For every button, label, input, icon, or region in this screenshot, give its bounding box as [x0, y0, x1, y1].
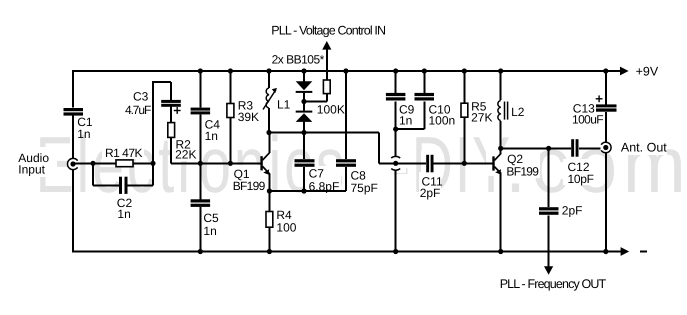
- capacitor C5: [191, 199, 211, 207]
- minus sign: [640, 251, 647, 253]
- junction C9 top rail: [393, 68, 398, 73]
- junction L2 top rail: [498, 68, 503, 73]
- wire R4 top lead: [268, 191, 270, 212]
- svg-text:10pF: 10pF: [568, 172, 594, 186]
- wire C13 top lead: [605, 71, 607, 104]
- transistor Q1: [260, 153, 269, 175]
- junction R5 Q2 base: [462, 161, 467, 166]
- svg-text:R1 47K: R1 47K: [105, 146, 143, 160]
- capacitor C12: [571, 139, 578, 157]
- wire R3 top lead: [229, 71, 231, 104]
- wire R2 bottom lead: [170, 137, 172, 163]
- wire node circle to C11: [396, 162, 427, 164]
- wire node circle down to ground: [395, 170, 397, 252]
- svg-text:75pF: 75pF: [351, 181, 378, 195]
- wire Q2 collector riser: [500, 148, 502, 154]
- junction C10 top rail: [422, 68, 427, 73]
- wire C9 bottom lead: [395, 101, 397, 156]
- junction C9 C10: [393, 127, 398, 132]
- wire 2pF to PLL freq arrow: [548, 216, 550, 267]
- junction R5 top rail: [462, 68, 467, 73]
- minus rail arrow: [608, 247, 629, 256]
- wire L2 top lead: [500, 71, 502, 100]
- junction R1 C2 C3 branch node: [150, 161, 155, 166]
- wire C2 loop bottom right: [128, 184, 154, 186]
- wire varactor junction to 100K: [304, 101, 327, 103]
- wire C2 loop bottom left: [93, 184, 119, 186]
- capacitor C3: [161, 100, 181, 107]
- wire C10 top lead: [423, 71, 425, 93]
- wire varactor bottom lead: [303, 122, 305, 133]
- capacitor C4: [191, 108, 211, 115]
- inductor L2: [498, 101, 508, 121]
- wire C12 to antenna connector: [579, 147, 600, 149]
- wire Q1 collector riser: [268, 133, 270, 153]
- wire C3 to R2: [170, 107, 172, 123]
- resistor R1: [116, 160, 133, 167]
- junction R1 C2 input node: [90, 161, 95, 166]
- wire R5 bottom lead: [463, 117, 465, 163]
- wire L1 bottom lead: [268, 108, 270, 133]
- junction C13 top rail: [603, 68, 608, 73]
- wire tank to node circle: [379, 162, 396, 164]
- wire emitter line to C8 corner: [269, 190, 346, 192]
- svg-text:BF199: BF199: [233, 179, 266, 193]
- capacitor C2: [119, 177, 128, 194]
- wire audio to R1: [75, 162, 117, 164]
- wire Q2 collector line to C12: [501, 147, 572, 149]
- PLL voltage control arrow: [322, 41, 331, 50]
- svg-text:2pF: 2pF: [420, 186, 441, 200]
- wire C1 to audio connector: [72, 116, 74, 159]
- wire Q2 emitter drop: [500, 172, 502, 251]
- wire top rail: [73, 70, 620, 72]
- wire L2 bottom lead: [500, 121, 502, 148]
- wire C10 jog to C9: [396, 128, 425, 130]
- wire 2pF tap lead: [548, 148, 550, 207]
- wire C5 bottom lead: [199, 207, 201, 252]
- junction varactor top rail: [301, 68, 306, 73]
- wire antenna connector down: [605, 153, 607, 252]
- node junction dot: [393, 161, 398, 166]
- wire C4 top lead: [199, 71, 201, 108]
- label background patches: [13, 136, 667, 200]
- svg-text:1n: 1n: [117, 207, 130, 221]
- svg-text:L1: L1: [277, 98, 291, 112]
- svg-text:100uF: 100uF: [572, 112, 603, 126]
- wire tank line: [269, 132, 379, 134]
- junction R4 ground rail: [267, 249, 272, 254]
- junction antenna ground rail: [603, 249, 608, 254]
- wire C9 top lead: [395, 71, 397, 93]
- resistor 100K: [323, 80, 330, 94]
- svg-text:C3: C3: [133, 90, 149, 104]
- wire varactor mid upper: [303, 93, 305, 111]
- wire R3 node to Q1 base: [230, 162, 261, 164]
- capacitor 2pF tap: [539, 207, 559, 215]
- inductor L1 arrow head: [272, 88, 277, 93]
- wire C7 top lead: [303, 133, 305, 160]
- wire C7 bottom lead: [303, 167, 305, 191]
- wire R5 node to Q2 base: [464, 162, 493, 164]
- wire C3 branch riser: [152, 82, 154, 164]
- capacitor C3 plus sign: [174, 107, 181, 114]
- junction C7 emitter line: [301, 188, 306, 193]
- svg-text:Input: Input: [18, 163, 45, 177]
- wire jog to C3: [170, 82, 172, 100]
- varactor diode D1: [296, 81, 313, 93]
- transistor Q2: [492, 153, 501, 174]
- capacitor C9: [386, 93, 406, 101]
- junction C4 top rail: [198, 68, 203, 73]
- wire C8 bottom lead: [345, 167, 347, 191]
- audio input connector: [67, 158, 77, 169]
- junction R3 base node: [228, 161, 233, 166]
- svg-text:2pF: 2pF: [562, 204, 583, 218]
- junction 2pF tap: [546, 146, 551, 151]
- junction node circle ground rail: [393, 249, 398, 254]
- junction Q1 emitter R4: [267, 188, 272, 193]
- wire C2 loop left: [92, 163, 94, 185]
- wire R2 to base node: [171, 162, 200, 164]
- wire R1 right lead: [133, 162, 153, 164]
- wire C8 top lead: [345, 71, 347, 159]
- capacitor C7: [295, 159, 315, 167]
- wire base node to R3 node: [200, 162, 230, 164]
- wire R5 top lead: [463, 71, 465, 103]
- svg-text:BF199: BF199: [506, 165, 539, 179]
- junction Q2 collector L2: [498, 146, 503, 151]
- svg-text:100K: 100K: [317, 102, 345, 116]
- junction C8 top rail: [343, 68, 348, 73]
- junction L1 top rail: [266, 68, 271, 73]
- svg-text:1n: 1n: [203, 224, 216, 238]
- wire 100K bottom lead: [326, 94, 328, 102]
- wire C13 bottom lead: [605, 112, 607, 142]
- capacitor C11: [426, 155, 433, 173]
- wire 100K top to PLL arrow: [326, 49, 328, 81]
- wire L1 top lead: [268, 71, 270, 88]
- wire C4 bottom lead: [199, 114, 201, 163]
- junction varactor midpoint: [301, 99, 306, 104]
- wire audio connector down: [72, 169, 74, 252]
- wire varactor top lead: [303, 71, 305, 81]
- resistor R5: [461, 103, 468, 117]
- capacitor C13: [596, 104, 617, 111]
- svg-text:1n: 1n: [77, 127, 90, 141]
- wire Q1 emitter drop: [268, 174, 270, 191]
- wire C5 top lead: [199, 163, 201, 199]
- svg-text:6.8pF: 6.8pF: [309, 180, 340, 194]
- antenna output connector: [601, 142, 611, 153]
- junction varactor C7 tank: [301, 130, 306, 135]
- watermark: [36, 120, 348, 209]
- wire C11 to R5 node: [433, 162, 464, 164]
- capacitor C8: [336, 159, 356, 167]
- svg-text:100: 100: [276, 221, 296, 235]
- svg-text:27K: 27K: [471, 111, 492, 125]
- junction C5 ground rail: [198, 249, 203, 254]
- wire bottom rail: [73, 251, 621, 253]
- svg-text:PLL - Voltage Control IN: PLL - Voltage Control IN: [271, 23, 386, 37]
- wire left rail top (C1 column): [72, 70, 74, 107]
- varactor diode D2: [296, 111, 313, 122]
- junction C4 C5 base node: [198, 161, 203, 166]
- capacitor C13 plus sign: [596, 95, 603, 102]
- wire C2 loop right: [152, 163, 154, 185]
- svg-text:Ant. Out: Ant. Out: [621, 141, 667, 155]
- +9V supply arrow: [608, 67, 629, 76]
- wire R4 bottom lead: [268, 227, 270, 251]
- svg-text:+9V: +9V: [636, 65, 659, 79]
- svg-text:4.7uF: 4.7uF: [125, 103, 151, 117]
- svg-text:100n: 100n: [429, 114, 456, 128]
- wire R3 bottom lead: [229, 118, 231, 164]
- svg-text:39K: 39K: [238, 110, 259, 124]
- capacitor C1: [64, 108, 84, 116]
- PLL frequency out arrow: [544, 266, 553, 275]
- junction Q1 collector tank: [266, 130, 271, 135]
- svg-text:2x BB105*: 2x BB105*: [272, 53, 325, 67]
- svg-text:PLL - Frequency OUT: PLL - Frequency OUT: [500, 277, 607, 291]
- junction Q2 emitter ground rail: [498, 249, 503, 254]
- inductor L1: [263, 88, 276, 110]
- wire C3 top jog: [152, 81, 171, 83]
- node junction arcs: [391, 156, 400, 170]
- svg-text:1n: 1n: [399, 114, 412, 128]
- resistor R4: [266, 212, 273, 228]
- svg-text:L2: L2: [511, 105, 525, 119]
- junction R3 top rail: [228, 68, 233, 73]
- wire tank drop: [378, 133, 380, 164]
- resistor R2: [168, 123, 175, 138]
- svg-text:22K: 22K: [175, 148, 196, 162]
- wire C10 bottom lead: [423, 101, 425, 129]
- svg-text:1n: 1n: [205, 129, 218, 143]
- resistor R3: [227, 104, 234, 118]
- capacitor C10: [415, 93, 435, 101]
